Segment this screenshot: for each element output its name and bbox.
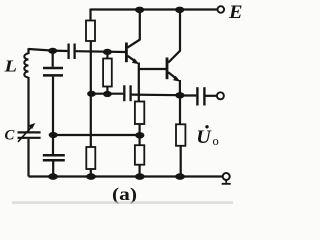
- wire variable cap to bottom rail corner: [27, 139, 29, 177]
- capacitor C3 coupling left plate: [67, 44, 69, 60]
- node bottom rail dot 3: [135, 173, 145, 180]
- wire R6 bottom lead: [180, 146, 182, 177]
- wire Q1 emitter to Q2 base: [139, 68, 166, 70]
- resistor R2: [103, 59, 112, 87]
- wire tank column lower: [52, 162, 54, 177]
- wire output to coupling cap: [180, 94, 196, 96]
- wire tank top (right part) to Q1 base: [76, 50, 126, 53]
- wire mid (right part) to Q2 emitter node: [132, 93, 180, 96]
- node bottom rail dot 2: [86, 173, 96, 180]
- resistor R1: [86, 21, 95, 42]
- scan shadow bottom edge: [12, 201, 233, 204]
- transistor Q1 emitter arrowhead: [132, 58, 139, 64]
- node bottom rail dot 4: [175, 173, 185, 180]
- capacitor C1 bottom plate: [43, 74, 63, 77]
- capacitor C2 top plate: [43, 154, 65, 157]
- node base junction dot: [103, 49, 112, 55]
- wire R1 top lead from rail corner: [89, 9, 91, 21]
- transistor Q1 base bar: [125, 43, 128, 63]
- svg-text:U: U: [196, 128, 212, 148]
- resistor R3 emitter resistor: [135, 102, 144, 125]
- wire tank column upper: [52, 51, 54, 67]
- wire R3 bottom lead: [139, 124, 141, 135]
- capacitor C5 left plate: [196, 87, 198, 105]
- wire R4 leads: [139, 135, 141, 176]
- capacitor C5 right plate: [203, 87, 205, 105]
- wire R1 lower lead crossing base wire down to mid node: [90, 41, 92, 94]
- node bottom rail dot 1: [48, 173, 58, 180]
- wire tank column middle: [52, 77, 54, 154]
- wire from mid node down crossing low wire: [90, 94, 92, 147]
- resistor R4: [135, 145, 144, 165]
- svg-text:E: E: [228, 2, 243, 23]
- terminal E open circle: [218, 6, 225, 13]
- capacitor C4 right plate: [129, 85, 131, 101]
- capacitor C4 left plate: [123, 85, 125, 101]
- terminal output open circle: [217, 92, 224, 99]
- inductor L coil: [24, 54, 28, 78]
- transistor Q2 collector: [168, 10, 180, 63]
- wire L bottom to variable capacitor: [27, 77, 29, 131]
- transistor Q1 emitter: [128, 56, 136, 62]
- wire R2 bottom lead: [106, 87, 108, 95]
- resistor R5: [86, 147, 95, 169]
- svg-text:(a): (a): [112, 184, 137, 204]
- node Q2 emitter junction dot: [175, 92, 184, 98]
- transistor Q2 emitter: [168, 72, 177, 79]
- svg-text:L: L: [3, 57, 17, 76]
- transistor Q1 collector: [128, 10, 140, 48]
- capacitor C variable bottom plate: [18, 137, 41, 139]
- svg-text:C: C: [5, 127, 15, 143]
- wire cap to output terminal: [205, 95, 217, 97]
- wire R5 bottom lead: [90, 169, 92, 177]
- capacitor C3 coupling right plate: [73, 44, 75, 60]
- resistor R2 top lead: [106, 52, 108, 59]
- terminal bottom-right open circle: [223, 173, 230, 180]
- wire top supply rail: [91, 8, 218, 10]
- svg-text:o: o: [213, 134, 219, 148]
- capacitor C1 top plate: [43, 67, 63, 70]
- wire low feedback wire: [53, 134, 140, 136]
- node rail dot Q1: [135, 7, 144, 13]
- capacitor C variable top plate: [18, 131, 41, 133]
- wire Q2 emitter down to node: [179, 80, 181, 95]
- node low-wire left junction dot: [49, 132, 58, 138]
- node tank-top junction dot: [48, 48, 57, 54]
- wire Q1 emitter down: [138, 63, 140, 102]
- label Uo output voltage: [196, 125, 218, 148]
- wire tank top (left part): [29, 49, 68, 51]
- capacitor C2 bottom plate: [43, 159, 65, 162]
- node R2 bottom junction dot: [103, 91, 112, 97]
- wire bottom ground rail: [29, 175, 223, 177]
- capacitor C variable arrow: [18, 128, 31, 142]
- wire R6 top lead: [179, 96, 181, 125]
- terminal bottom-right pedestal: [222, 180, 231, 184]
- inductor L lead: [27, 48, 29, 54]
- resistor R6 load: [176, 124, 185, 146]
- node mid-left junction dot: [87, 91, 96, 97]
- wire mid (left part): [92, 93, 124, 95]
- node rail dot Q2: [175, 7, 184, 13]
- transistor Q2 base bar: [166, 58, 169, 80]
- node low-wire right junction dot: [135, 132, 144, 138]
- transistor Q2 emitter arrowhead: [173, 76, 180, 82]
